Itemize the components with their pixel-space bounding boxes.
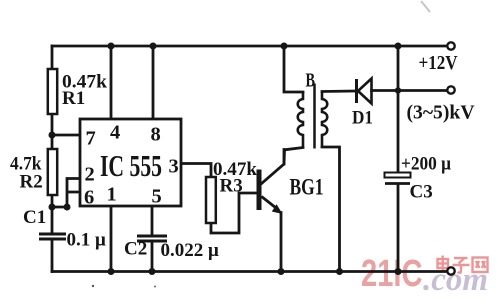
wire pin3 to R3 bbox=[181, 164, 211, 178]
svg-text:3: 3 bbox=[169, 156, 179, 178]
capacitor C1 bbox=[39, 234, 66, 239]
node bottom right rail bbox=[395, 268, 402, 275]
wire emitter drop bbox=[280, 213, 283, 272]
wire R2 to node bbox=[51, 195, 54, 233]
svg-text:(3~5)kV: (3~5)kV bbox=[407, 102, 476, 124]
svg-text:D1: D1 bbox=[352, 108, 373, 129]
node R2 C1 bbox=[49, 204, 56, 211]
svg-text:R2: R2 bbox=[20, 172, 43, 193]
node top pin4 bbox=[108, 43, 115, 50]
node bottom emitter bbox=[278, 268, 285, 275]
wire R1 to pin7 tap bbox=[51, 114, 54, 149]
node top pin8 bbox=[150, 43, 157, 50]
svg-text:0.022 μ: 0.022 μ bbox=[161, 240, 220, 261]
capacitor C2 bbox=[137, 236, 167, 241]
resistor R1 bbox=[48, 69, 57, 114]
transistor BG1 bbox=[259, 170, 283, 215]
watermark bbox=[361, 253, 488, 298]
node top primary bbox=[281, 43, 288, 50]
node top right rail bbox=[395, 43, 402, 50]
node bottom secondary bbox=[336, 268, 343, 275]
scan speck marks bbox=[92, 285, 94, 287]
wire right rail lower bbox=[397, 184, 400, 272]
diode D1 bbox=[357, 79, 372, 104]
terminal HV bbox=[447, 86, 454, 93]
svg-text:4: 4 bbox=[110, 122, 120, 144]
resistor R3 bbox=[206, 177, 216, 223]
svg-text:C2: C2 bbox=[124, 239, 147, 260]
wire secondary top to diode bbox=[322, 90, 355, 93]
svg-text:5: 5 bbox=[152, 186, 162, 208]
wire diode to terminals bbox=[372, 89, 448, 92]
svg-text:C3: C3 bbox=[410, 182, 433, 203]
IC U1 IC555 bbox=[80, 119, 181, 206]
node pins 2 6 bbox=[64, 204, 71, 211]
node diode right rail bbox=[395, 87, 401, 93]
wire top rail bbox=[52, 45, 448, 48]
svg-text:8: 8 bbox=[151, 124, 161, 146]
svg-text:C1: C1 bbox=[23, 207, 46, 228]
resistor R2 bbox=[48, 149, 57, 195]
wire R3 to base of BG1 bbox=[211, 193, 258, 233]
scan artifact mark top right bbox=[421, 1, 430, 12]
wire primary top bbox=[284, 46, 303, 92]
wire pin4 riser bbox=[110, 46, 113, 119]
svg-text:1: 1 bbox=[107, 184, 117, 206]
svg-text:IC 555: IC 555 bbox=[100, 148, 162, 183]
svg-text:0.1 μ: 0.1 μ bbox=[67, 230, 107, 251]
wire left rail top bbox=[51, 46, 54, 69]
svg-text:7: 7 bbox=[86, 128, 96, 150]
node bottom pin1 bbox=[108, 268, 115, 275]
svg-text:R1: R1 bbox=[62, 88, 85, 109]
wire node to pins 2 and 6 bbox=[52, 179, 80, 208]
svg-text:R3: R3 bbox=[220, 176, 243, 197]
svg-text:6: 6 bbox=[84, 187, 94, 209]
node bottom pin5 bbox=[149, 268, 156, 275]
wire primary bottom bbox=[284, 148, 303, 165]
wire collector riser bbox=[262, 150, 285, 184]
wire right rail upper bbox=[397, 46, 400, 173]
svg-text:B: B bbox=[306, 71, 316, 92]
svg-text:2: 2 bbox=[85, 164, 95, 186]
svg-text:BG1: BG1 bbox=[290, 175, 324, 200]
wire pin5 drop through C2 bbox=[151, 206, 154, 272]
wire pin7 bbox=[52, 134, 80, 137]
wire secondary bottom drop bbox=[322, 147, 340, 272]
svg-text:21IC: 21IC bbox=[361, 253, 423, 295]
svg-text:+200 μ: +200 μ bbox=[401, 154, 451, 175]
terminal +12V bbox=[447, 42, 454, 49]
terminal bottom bbox=[447, 267, 454, 274]
transformer B bbox=[298, 84, 328, 149]
wire pin8 riser bbox=[152, 46, 155, 119]
wire bottom rail bbox=[52, 270, 448, 273]
wire pin1 drop bbox=[110, 206, 113, 272]
capacitor C3 bbox=[385, 173, 411, 184]
node R1 R2 pin7 bbox=[49, 132, 56, 139]
wire C1 to bottom rail bbox=[51, 239, 54, 272]
svg-text:+12V: +12V bbox=[419, 52, 458, 74]
